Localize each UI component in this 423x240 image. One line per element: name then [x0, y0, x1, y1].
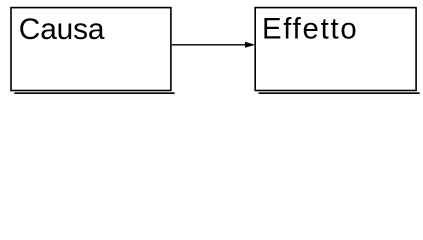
- box Effetto: [255, 8, 416, 91]
- svg-text:Effetto: Effetto: [262, 12, 358, 45]
- box Causa: [11, 8, 171, 91]
- shadow line under box Causa: [14, 92, 174, 94]
- arrowhead: [245, 42, 255, 48]
- shadow line under box Effetto: [259, 92, 420, 94]
- arrow wire from Causa to Effetto: [172, 44, 246, 46]
- svg-text:Causa: Causa: [19, 13, 105, 46]
